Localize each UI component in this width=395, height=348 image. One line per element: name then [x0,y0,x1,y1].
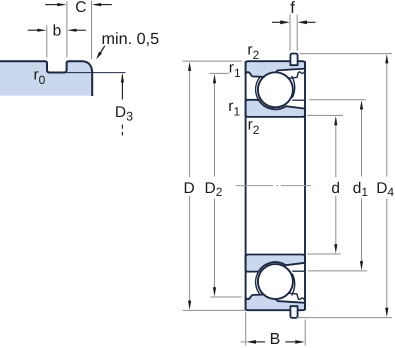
outer ring section outline [0,61,92,96]
svg-text:D2: D2 [205,180,223,199]
side faces [245,61,247,310]
svg-text:C: C [75,0,86,16]
raceway arc left [256,77,261,100]
extension line groove right [66,1,68,58]
extension line outer face [91,1,93,59]
outer ring (top) [246,61,305,77]
svg-text:D4: D4 [376,180,394,199]
raceway arc right [292,76,295,98]
svg-text:r2: r2 [248,117,260,138]
dimension B [246,312,306,346]
svg-text:d: d [331,180,340,197]
dimension d [307,115,343,254]
dimension C arrows [45,3,112,6]
dimension D4 [297,54,392,318]
svg-text:r1: r1 [229,59,241,80]
svg-text:D3: D3 [115,104,133,124]
svg-text:f: f [290,0,295,17]
snap ring (top) [290,54,297,66]
top half of bearing [246,54,305,117]
svg-text:B: B [270,331,281,348]
svg-text:D: D [184,180,195,197]
centerline [236,185,312,187]
dimension D2 [209,73,241,297]
svg-text:d1: d1 [353,180,369,199]
D3 reference line [67,72,126,74]
dimension D3 arrow [121,75,123,100]
svg-text:r1: r1 [228,98,240,119]
inner ring (top) [246,100,305,117]
svg-text:min. 0,5: min. 0,5 [102,30,160,48]
D3 dashed continuation [121,125,123,136]
leader arrow min 0,5 [100,46,105,53]
svg-text:r2: r2 [247,42,259,63]
extension line groove left [46,26,48,58]
outer ring snap-ring-groove projection line [288,71,306,78]
dimension d1 [308,100,368,271]
dimension f [289,15,291,51]
bottom half of bearing (mirror) [246,255,305,318]
outer ring section fill [0,61,92,95]
svg-text:b: b [53,22,62,39]
dimension b arrows [28,29,86,32]
dimension D [183,61,247,310]
inner ring shoulder projection line [292,99,305,101]
ball (top) [258,72,293,107]
